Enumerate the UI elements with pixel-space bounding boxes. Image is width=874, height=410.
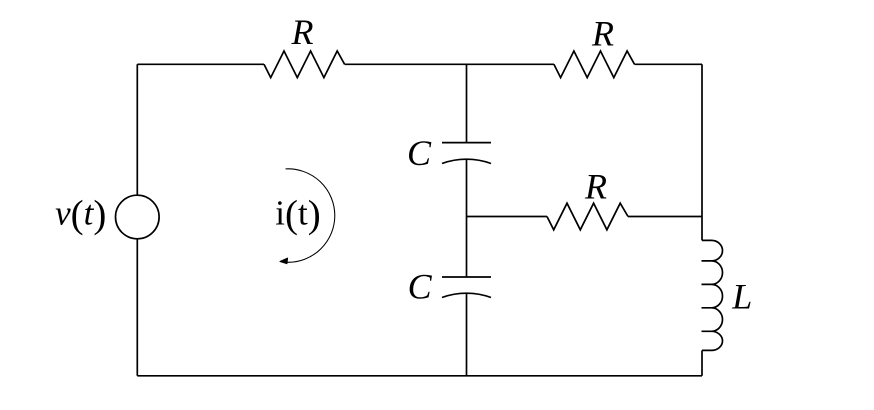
wire middle vertical upper (top wire to capacitor C1) (466, 64, 468, 142)
wire bottom horizontal (137, 375, 702, 377)
wire middle horizontal (node B to R3) (467, 216, 548, 218)
svg-text:v(t): v(t) (55, 193, 106, 236)
capacitor C2 flat plate (442, 276, 491, 278)
capacitor C1 curved plate (442, 159, 491, 163)
svg-text:R: R (591, 14, 614, 54)
svg-text:C: C (407, 133, 432, 173)
wire top horizontal left segment (137, 63, 264, 65)
wire middle vertical (C1 to node B to capacitor C2) (466, 159, 468, 277)
capacitor C1 flat plate (442, 142, 491, 144)
svg-text:R: R (291, 12, 314, 52)
wire middle horizontal right (R3 to right wire) (628, 216, 702, 218)
svg-text:R: R (584, 167, 607, 207)
wire middle vertical lower (C2 to bottom wire) (466, 293, 468, 376)
mesh current arrowhead (280, 258, 288, 264)
wire left-top vertical (source top to top-left corner) (136, 64, 138, 195)
mesh current arrow arc i(t) (286, 169, 335, 262)
inductor L coil (5 arcs with connector dashes) (702, 240, 723, 350)
resistor R2 (top-right) zigzag (554, 51, 635, 78)
svg-text:i(t): i(t) (275, 193, 320, 236)
wire left vertical lower (source bottom to bottom-left corner) (136, 239, 138, 376)
resistor R1 (top-left) zigzag (264, 51, 345, 78)
svg-text:C: C (408, 267, 433, 307)
capacitor C2 curved plate (442, 293, 491, 297)
voltage source v(t) circle (116, 195, 160, 239)
wire right vertical upper (top-right corner to inductor) (701, 64, 703, 240)
wire right vertical lower (inductor to bottom-right corner) (701, 350, 703, 375)
resistor R3 (middle) zigzag (547, 203, 628, 230)
wire top horizontal middle segment (R1 to node A and on to R2) (345, 63, 554, 65)
svg-text:L: L (731, 276, 752, 316)
wire top horizontal right segment to top-right corner (635, 63, 703, 65)
